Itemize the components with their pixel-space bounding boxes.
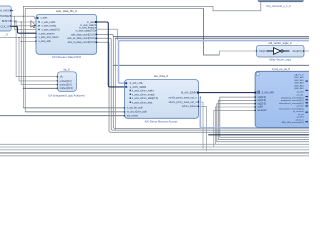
svg-text:interconnect_aresetn[0:0]: interconnect_aresetn[0:0] [279, 107, 304, 110]
svg-text:M03_AXI: M03_AXI [295, 82, 304, 85]
svg-text:ILA (Integrated Logic Analyzer: ILA (Integrated Logic Analyzer) [48, 94, 85, 98]
svg-text:s2mm_introut: s2mm_introut [182, 105, 197, 108]
svg-text:axi_resetn: axi_resetn [127, 114, 139, 117]
svg-text:axis_data_count[31:0]: axis_data_count[31:0] [71, 33, 95, 36]
svg-text:S_AXIS_S2MM: S_AXIS_S2MM [130, 86, 147, 89]
svg-text:util_vector_logic_2: util_vector_logic_2 [268, 41, 292, 45]
svg-text:S_AXI_HP0: S_AXI_HP0 [262, 91, 275, 94]
svg-text:mm2s_prmry_reset_out_n: mm2s_prmry_reset_out_n [169, 96, 198, 99]
svg-text:s_axis_aclk: s_axis_aclk [39, 40, 52, 43]
svg-text:AXI-Stream Data FIFO: AXI-Stream Data FIFO [52, 55, 82, 59]
svg-text:M_AXI_S2MM: M_AXI_S2MM [181, 92, 196, 95]
svg-text:pl_clk3: pl_clk3 [297, 117, 305, 119]
svg-text:CA_PL_0: CA_PL_0 [294, 73, 304, 76]
svg-text:m_axi_s2mm_aclk: m_axi_s2mm_aclk [127, 111, 148, 114]
svg-text:M00_AXI_aresetn[0:0]: M00_AXI_aresetn[0:0] [282, 121, 304, 124]
svg-text:aresetn0: aresetn0 [258, 109, 268, 112]
svg-text:M01_AXI: M01_AXI [295, 76, 304, 79]
svg-text:s_axis_s2mm_tdata[7:0]: s_axis_s2mm_tdata[7:0] [132, 97, 158, 100]
svg-text:pl_rst: pl_rst [298, 113, 304, 116]
svg-text:M04_AXI: M04_AXI [295, 84, 304, 87]
svg-text:Op1[0:0]: Op1[0:0] [259, 50, 269, 53]
svg-text:irq2[0:0]: irq2[0:0] [258, 102, 267, 105]
svg-text:BUSY: BUSY [2, 19, 9, 23]
svg-text:Utility Vector Logic: Utility Vector Logic [269, 58, 292, 62]
svg-text:Top_xlconcat_v_1_0: Top_xlconcat_v_1_0 [266, 4, 291, 8]
svg-text:pl_clk2: pl_clk2 [297, 106, 305, 108]
svg-text:pl_rst_n: pl_rst_n [296, 118, 305, 121]
svg-text:axis_wr_data_count[31:0]: axis_wr_data_count[31:0] [67, 37, 95, 40]
svg-text:ila_0: ila_0 [64, 68, 70, 72]
svg-text:axi_dma_0: axi_dma_0 [154, 74, 169, 78]
svg-text:probe2[31:0]: probe2[31:0] [60, 87, 73, 90]
svg-text:M02_AXI: M02_AXI [295, 79, 304, 82]
svg-text:TDONE: TDONE [0, 14, 9, 18]
svg-text:..._0: ..._0 [3, 33, 9, 37]
svg-text:Res[0:0]: Res[0:0] [293, 50, 302, 53]
svg-text:pl_clk1: pl_clk1 [297, 95, 305, 97]
svg-text:s_axis_tdata[7:0]: s_axis_tdata[7:0] [42, 28, 60, 31]
svg-text:CLK_O: CLK_O [0, 24, 9, 28]
svg-text:probe0[0:0]: probe0[0:0] [60, 80, 72, 83]
svg-text:s_axis_s2mm_tvalid: s_axis_s2mm_tvalid [132, 90, 154, 93]
svg-text:s_axis_aresetn: s_axis_aresetn [39, 32, 56, 35]
svg-text:S_AXI_LITE: S_AXI_LITE [130, 82, 144, 85]
svg-text:peripheral_aresetn[0:0]: peripheral_aresetn[0:0] [281, 99, 304, 102]
svg-text:s_axis: s_axis [41, 17, 49, 20]
svg-text:axis_rd_data_count[31:0]: axis_rd_data_count[31:0] [68, 41, 95, 44]
svg-text:zynq_us_ps_0: zynq_us_ps_0 [272, 67, 290, 71]
svg-text:irq0[0:0]: irq0[0:0] [258, 96, 267, 99]
svg-text:pl_clk0: pl_clk0 [297, 92, 305, 94]
svg-text:M_AXIS: M_AXIS [0, 9, 9, 13]
svg-text:peripheral_aresetn[0:0]: peripheral_aresetn[0:0] [281, 96, 304, 99]
svg-text:axis_data_fifo_0: axis_data_fifo_0 [56, 9, 77, 13]
svg-text:m_axis_tdata[7:0]: m_axis_tdata[7:0] [76, 30, 95, 33]
svg-text:s2mm_prmry_reset_out_n: s2mm_prmry_reset_out_n [169, 101, 198, 104]
svg-text:M06_AXI: M06_AXI [295, 87, 304, 90]
svg-text:s_axis_tvalid: s_axis_tvalid [42, 21, 56, 24]
svg-text:s_axis_s2mm_tlast: s_axis_s2mm_tlast [132, 101, 153, 104]
svg-text:interconnect_aresetn[0:0]: interconnect_aresetn[0:0] [279, 102, 304, 105]
svg-text:s_axis_tready: s_axis_tready [42, 25, 58, 28]
svg-text:s_axi_lite_aclk: s_axi_lite_aclk [127, 107, 143, 110]
svg-text:pl_resetn0: pl_resetn0 [293, 110, 304, 113]
svg-text:AXI Direct Memory Access: AXI Direct Memory Access [144, 120, 178, 124]
svg-text:aclk0: aclk0 [258, 107, 264, 109]
svg-text:s_axis_s2mm_tready: s_axis_s2mm_tready [132, 93, 155, 96]
svg-text:s_axis_arst_resetn: s_axis_arst_resetn [39, 36, 60, 39]
svg-text:probe1[0:0]: probe1[0:0] [60, 84, 72, 87]
svg-text:irq1[0:0]: irq1[0:0] [258, 99, 267, 102]
